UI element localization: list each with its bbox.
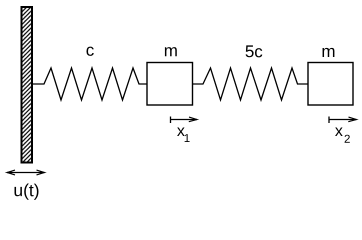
- displacement arrow x1 (head): [189, 117, 197, 122]
- input motion double arrow u(t) (right head): [37, 170, 45, 175]
- svg-text:x: x: [335, 123, 343, 140]
- mass M1 (box): [147, 63, 193, 106]
- spring c (between wall and mass M1): [33, 68, 147, 100]
- svg-text:1: 1: [184, 133, 190, 145]
- input motion double arrow u(t) (left head): [7, 170, 15, 175]
- svg-text:5c: 5c: [245, 42, 263, 61]
- svg-text:m: m: [321, 42, 335, 61]
- displacement arrow x1 (origin tick): [170, 117, 172, 124]
- spring 5c (between mass M1 and mass M2): [193, 68, 309, 100]
- svg-text:m: m: [164, 41, 178, 60]
- displacement arrow x2 (head): [348, 117, 356, 122]
- displacement arrow x2 (shaft): [329, 119, 357, 121]
- svg-text:c: c: [86, 41, 95, 60]
- svg-text:2: 2: [344, 134, 350, 146]
- displacement arrow x2 (origin tick): [328, 117, 330, 124]
- input motion double arrow u(t) (shaft): [7, 172, 45, 174]
- mass M2 (box): [308, 63, 353, 106]
- svg-text:u(t): u(t): [13, 180, 39, 200]
- displacement arrow x1 (shaft): [171, 119, 198, 121]
- wall (hatched fixed support): [22, 7, 33, 163]
